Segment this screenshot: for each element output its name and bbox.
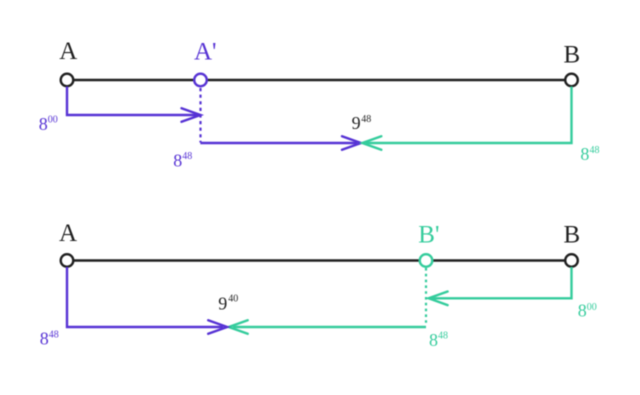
- wire green elbow from B (top): [366, 87, 572, 144]
- svg-text:8: 8: [429, 330, 438, 350]
- node B (bottom): [565, 254, 578, 267]
- wire green elbow from B (bottom): [431, 267, 572, 298]
- svg-text:9: 9: [218, 294, 227, 314]
- svg-text:8: 8: [39, 114, 48, 134]
- node A (top): [61, 74, 74, 87]
- svg-text:48: 48: [49, 329, 59, 340]
- arrowhead left green at B' dashed (bottom): [429, 292, 448, 306]
- node A (bottom): [61, 254, 74, 267]
- label 8^48 green (below B'): [429, 330, 448, 350]
- label 8^00 green (bottom right): [578, 301, 597, 321]
- svg-text:48: 48: [182, 151, 192, 162]
- svg-text:8: 8: [173, 151, 182, 171]
- label 9^40 black (bottom meeting): [218, 294, 238, 314]
- svg-text:8: 8: [578, 301, 587, 321]
- dashed vertical at A' (top): [199, 88, 201, 143]
- arrowhead left green meeting (top): [362, 136, 381, 150]
- svg-text:8: 8: [580, 144, 589, 164]
- label A' (top): [194, 39, 217, 66]
- node B' (bottom): [420, 254, 433, 267]
- wire purple elbow from A (top): [67, 87, 197, 116]
- arrowhead right purple meeting (top): [342, 136, 361, 150]
- arrowhead left green meeting (bottom): [229, 320, 248, 334]
- label B (bottom): [563, 222, 580, 249]
- svg-text:9: 9: [352, 113, 361, 133]
- svg-text:B: B: [563, 222, 580, 249]
- svg-text:A: A: [59, 38, 77, 65]
- label 8^00 purple (top left): [39, 114, 58, 134]
- svg-text:8: 8: [40, 328, 49, 348]
- svg-text:00: 00: [48, 115, 58, 126]
- svg-text:48: 48: [438, 330, 448, 341]
- label B (top): [563, 41, 580, 68]
- label 8^48 green (top right): [580, 144, 599, 164]
- node A' (top): [194, 74, 207, 87]
- wire segment AB (top baseline): [67, 79, 572, 81]
- arrowhead right purple meeting (bottom): [208, 320, 227, 334]
- svg-text:B: B: [563, 41, 580, 68]
- svg-text:40: 40: [228, 294, 238, 305]
- svg-text:A': A': [194, 39, 217, 66]
- wire purple meeting arrow shaft (top): [200, 142, 357, 144]
- svg-text:B': B': [418, 222, 439, 249]
- label 8^48 purple (below A'): [173, 151, 192, 171]
- label 9^48 black (top meeting): [352, 113, 372, 133]
- wire green meeting arrow shaft (bottom): [233, 326, 426, 328]
- label A (bottom): [59, 220, 77, 247]
- svg-text:48: 48: [361, 114, 371, 125]
- node B (top): [565, 74, 578, 87]
- svg-text:48: 48: [590, 145, 600, 156]
- arrowhead right at A' (top): [182, 108, 201, 122]
- label A (top): [59, 38, 77, 65]
- dashed vertical at B' (bottom): [425, 268, 427, 325]
- svg-text:00: 00: [587, 302, 597, 313]
- label B' (bottom): [418, 222, 439, 249]
- wire segment AB (bottom baseline): [67, 259, 572, 261]
- svg-text:A: A: [59, 220, 77, 247]
- label 8^48 purple (bottom left): [40, 328, 59, 348]
- wire purple elbow from A (bottom): [67, 267, 223, 327]
